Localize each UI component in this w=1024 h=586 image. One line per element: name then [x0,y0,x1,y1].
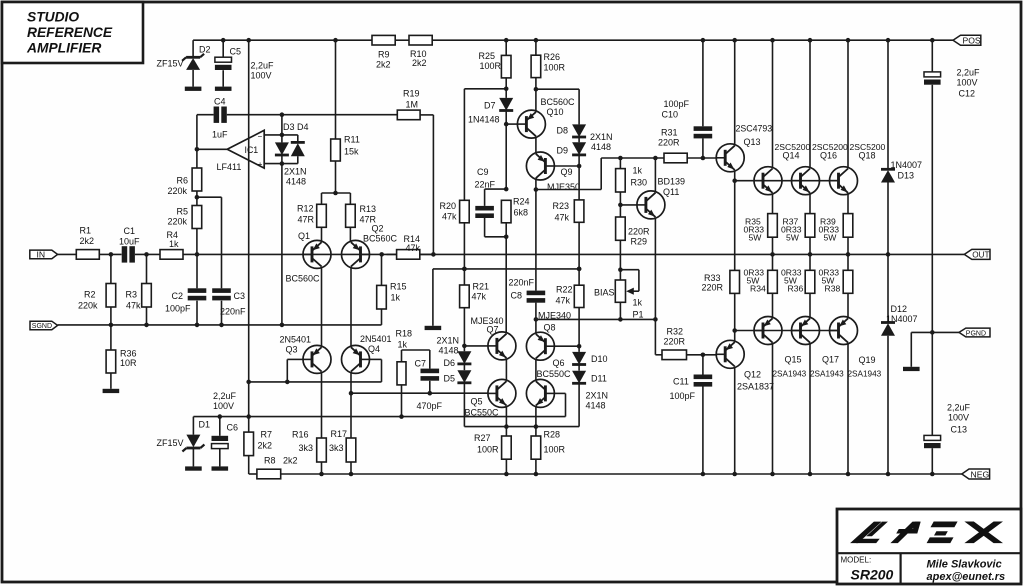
svg-text:R9: R9 [378,50,390,60]
capacitor C13 [924,403,971,449]
wire P1 bottom lead [619,302,621,319]
wire Q11 collector lead [654,158,656,192]
wire Q13 collector to POS [734,40,736,144]
wire VAS node up [600,158,602,190]
svg-text:10R: 10R [120,358,137,368]
svg-text:47R: 47R [298,215,315,225]
wire Q6 collector to R28 [535,407,537,436]
wire R5 to input node [196,229,198,255]
wire D4 top lead [297,135,299,141]
wire R2 top lead [110,254,112,283]
wire Q7 base wire [464,345,488,347]
resistor R29 [616,217,650,247]
wire R11 top lead [335,40,337,139]
wire non-inverting input down to SGND [281,164,283,325]
svg-text:C11: C11 [673,377,689,387]
diode D5 [444,370,472,383]
svg-text:15k: 15k [344,147,359,157]
svg-text:Q14: Q14 [783,151,800,161]
wire Q13 emitter down [734,171,736,270]
svg-text:D5: D5 [444,374,456,384]
diode D11 [572,371,607,384]
wire PNP emitter to NEG rail [847,344,849,474]
svg-text:Q8: Q8 [544,323,556,333]
svg-text:100R: 100R [544,63,566,73]
svg-text:R6: R6 [177,176,189,186]
wire D3 bottom lead [281,156,283,164]
wire R20 top to R25/D7 node [464,88,506,90]
diode D7 [468,98,513,125]
wire D12 anode lead [887,336,889,474]
svg-text:Q19: Q19 [859,355,876,365]
wire PNP base line [735,330,839,332]
svg-text:6k8: 6k8 [514,208,529,218]
wire R24 bottom lead [505,223,507,237]
capacitor C9 [475,167,496,218]
wire R14 right [420,253,434,255]
svg-text:Q18: Q18 [859,151,876,161]
wire R18/C7 top loop [402,349,430,351]
wire Q4 collector to R17 [350,373,352,438]
svg-text:5W: 5W [824,233,838,243]
svg-text:NEG: NEG [971,469,990,479]
wire D1 bottom lead [192,448,194,466]
resistor R19 [397,89,420,120]
svg-text:100V: 100V [948,413,969,423]
svg-text:C7: C7 [415,359,427,369]
svg-text:R13: R13 [360,204,377,214]
svg-text:PGND: PGND [966,331,986,338]
svg-text:220R: 220R [702,283,724,293]
transistor Q1 BC560C [286,231,332,284]
transistor Q3 2N5401 [280,335,332,374]
transistor Q19 2SA1943 [830,317,882,379]
node POS [953,35,981,45]
transistor Q8 MJE350 [526,311,571,361]
transistor Q14 2SC5200 [754,142,811,195]
wire C11 to NEG rail [702,387,704,475]
transistor Q12 2SA1837 [716,340,774,391]
wire R31 to Q13 base [687,157,717,159]
svg-text:D13: D13 [898,171,915,181]
wire Q9 collector to VAS node [536,189,601,191]
wire R12 top lead [321,193,323,204]
wire R23 to R22 [578,222,580,285]
wire bias rail [536,318,656,320]
resistor R39 [819,214,853,243]
svg-text:220k: 220k [168,186,188,196]
node op-amp output [195,147,200,152]
svg-text:ZF15V: ZF15V [157,59,184,69]
wire R11 bottom lead [335,161,337,193]
wire Q10 collector to Q9 emitter [535,137,537,152]
wire C9 top lead [484,189,486,206]
wire R13 top lead [349,193,351,204]
svg-text:2N5401: 2N5401 [360,334,392,344]
wire R6-R5 [196,191,198,206]
diode D1 ZF15V [157,420,211,452]
wire R32 to Q12 base [687,354,717,356]
svg-text:100R: 100R [480,61,502,71]
svg-text:2X1N: 2X1N [590,132,613,142]
wire D2 bottom lead [192,70,194,87]
svg-text:R30: R30 [631,178,648,188]
svg-text:D7: D7 [484,101,496,111]
resistor R36 [106,349,137,374]
wire D12 cathode lead [887,254,889,322]
svg-text:220nF: 220nF [220,307,246,317]
wire D10-D11 [578,365,580,371]
svg-text:R31: R31 [661,128,678,138]
svg-text:2N5401: 2N5401 [280,335,312,345]
resistor R36 output [781,268,803,294]
svg-text:2SC4793: 2SC4793 [736,124,773,134]
wire Q4 base down [381,359,383,382]
wire OUT line to lower resistor [772,254,774,270]
svg-text:100pF: 100pF [165,304,191,314]
svg-text:Q5: Q5 [471,397,483,407]
wire C4 left [197,114,214,116]
wire IC1 inverting input [264,134,298,136]
resistor R21 [460,282,489,308]
wire D7 to R24 [505,111,507,190]
wire Q6 base to -15V line [565,393,567,416]
svg-text:R29: R29 [631,237,648,247]
svg-text:R24: R24 [513,197,530,207]
svg-text:1k: 1k [633,298,643,308]
wire Q10 base stub [506,123,517,125]
svg-text:C6: C6 [227,423,239,433]
wire R20 column [463,89,465,201]
svg-text:100R: 100R [477,445,499,455]
svg-text:2SA1943: 2SA1943 [773,370,807,379]
svg-text:Q12: Q12 [744,370,761,380]
capacitor C2 [165,288,206,313]
svg-text:D10: D10 [591,354,608,364]
svg-text:IC1: IC1 [245,145,259,155]
wire C7 bottom lead [429,381,431,393]
wire C9 top loop [485,188,507,190]
svg-text:BC560C: BC560C [363,234,398,244]
wire Q11 emitter to R32 [655,354,662,356]
logo box APEX [837,509,1021,584]
diode D2 ZF15V [157,45,211,70]
wire C4 to R19 [227,114,397,116]
svg-text:C13: C13 [951,425,968,435]
svg-text:2SA1837: 2SA1837 [737,382,774,392]
svg-text:Q2: Q2 [372,224,384,234]
svg-text:100V: 100V [251,71,272,81]
svg-text:R32: R32 [667,327,684,337]
svg-text:1M: 1M [406,100,419,110]
svg-text:R23: R23 [553,201,570,211]
resistor R5 [168,206,202,229]
svg-text:R16: R16 [292,430,309,440]
diode D4 [291,122,309,156]
svg-text:2SA1943: 2SA1943 [848,370,882,379]
wire R18 top lead [401,350,403,362]
svg-text:220R: 220R [658,138,680,148]
svg-text:2k2: 2k2 [80,236,95,246]
svg-text:R15: R15 [390,282,407,292]
wire C1 to R4 [135,253,160,255]
wire resistor to PNP collector [809,293,811,317]
resistor R2 [78,284,116,311]
wire C3 bottom lead [221,301,223,325]
resistor R34 [744,268,778,294]
wire Q3 base down [286,359,288,382]
svg-text:1k: 1k [169,239,179,249]
wire R2 bottom lead [110,307,112,325]
wire R36 top lead [110,325,112,350]
wire C12 top lead [931,40,933,72]
resistor R4 [160,230,183,259]
wire R7 bottom lead [248,456,250,474]
wire R7 to R8 [249,473,257,475]
wire Q11 emitter down [654,218,656,355]
wire D11 to lower line [578,383,580,426]
node IN [30,249,58,259]
wire emitter resistor to OUT line [809,237,811,254]
svg-text:47k: 47k [555,213,570,223]
wire D13 anode lead [887,183,889,255]
wire D3 top lead [281,115,283,143]
resistor R6 [168,168,202,196]
transistor Q10 BC560C [517,97,575,138]
wire R12 to Q1 emitter [321,227,323,241]
wire R21 to D6 [463,308,465,352]
svg-text:C3: C3 [234,291,246,301]
wire PNP emitter to NEG rail [772,344,774,474]
svg-text:OUT: OUT [972,251,989,260]
wire R21/R22 bias line [433,268,579,270]
wire SGND line [58,324,382,326]
wire lower VAS line [464,426,579,428]
capacitor C6 [212,391,239,449]
wire R3 bottom lead [146,307,148,325]
wire R22 to D10 [578,308,580,352]
svg-text:REFERENCE: REFERENCE [27,25,113,40]
wire to Q7 collector [505,237,507,332]
svg-text:R25: R25 [479,51,496,61]
svg-text:+: + [258,160,263,169]
resistor R30 [616,166,647,193]
svg-text:2k2: 2k2 [376,60,391,70]
svg-text:R33: R33 [704,273,721,283]
wire output collector to POS [809,40,811,167]
wire D6-D5 [463,364,465,370]
svg-text:Q15: Q15 [785,355,802,365]
wire C10 top lead [702,40,704,126]
transistor Q16 2SC5200 [792,142,849,195]
svg-text:2,2uF: 2,2uF [213,391,237,401]
resistor R11 [331,135,360,162]
wire R33 to Q12 [734,293,736,341]
wire C11 top lead [702,355,704,375]
svg-text:220R: 220R [628,227,650,237]
diode D12 [881,304,918,336]
svg-text:1k: 1k [398,340,408,350]
wire Q12 collector to NEG [734,368,736,475]
svg-text:MODEL:: MODEL: [841,556,872,565]
resistor R27 [474,433,511,459]
wire Q16 emitter to R37 [809,194,811,214]
wire C13 to NEG rail [931,448,933,474]
diode D6 [444,351,472,368]
diode D13 [881,160,922,183]
wire R27 to NEG rail [505,459,507,474]
svg-text:R18: R18 [396,329,413,339]
svg-text:R28: R28 [544,430,561,440]
svg-text:Q7: Q7 [487,325,499,335]
wire D8-D9 [578,137,580,142]
svg-text:3k3: 3k3 [329,443,344,453]
wire D9 to R23 [578,155,580,200]
ground [185,87,202,91]
node NEG [962,469,990,479]
wire PGND node to C13 [931,332,933,435]
wire D5 to lower line [463,383,465,427]
wire R18 bottom lead [401,385,403,417]
node SGND [30,321,58,330]
wire NEG rail [281,473,962,475]
wire R15 top lead [381,254,383,285]
wire R5/R6 node to C3 [197,196,222,198]
svg-text:C10: C10 [662,110,679,120]
transistor Q2 BC560C [342,224,398,269]
wire R7 top lead [248,417,250,433]
svg-text:SR200: SR200 [851,567,894,583]
wire Q9 base stub [554,165,579,167]
resistor R37 [781,214,815,243]
svg-text:Q17: Q17 [822,355,839,365]
wire Q2 collector to Q4 emitter [350,268,352,347]
wire to D8 top [536,88,579,90]
wire R13 to Q2 emitter [349,227,351,241]
resistor R22 [556,285,584,308]
svg-text:BIAS: BIAS [594,288,615,298]
wire Q3/Q4 base bias line [249,381,382,383]
svg-text:1N4007: 1N4007 [891,160,923,170]
svg-text:AMPLIFIER: AMPLIFIER [26,41,101,56]
wire C3 top lead [221,197,223,288]
op-amp IC1 LF411 [217,130,265,172]
transistor Q9 MJE350 [526,152,580,192]
wire Q1 collector to Q3 emitter [321,268,323,347]
node PGND [959,328,990,337]
svg-text:D12: D12 [891,304,908,314]
wire IN to R1 [58,253,77,255]
capacitor C1 [119,226,140,263]
wire resistor to PNP collector [772,293,774,317]
svg-text:C1: C1 [124,226,136,236]
potentiometer P1 BIAS [594,270,644,320]
resistor R20 [440,200,470,223]
svg-text:Q9: Q9 [561,167,573,177]
wire C4 left down to R6 [196,115,198,168]
resistor R3 [126,284,152,311]
resistor R13 [346,204,377,227]
wire emitter resistor to OUT line [772,237,774,254]
transistor Q15 2SA1943 [754,317,807,379]
transistor Q7 MJE340 [471,316,516,360]
wire R30 to R29 [619,192,621,217]
wire Q6 base stub [554,392,565,394]
svg-text:4148: 4148 [591,142,611,152]
resistor R7 [244,430,272,456]
svg-text:R3: R3 [126,290,138,300]
svg-text:47k: 47k [442,212,457,222]
wire D2 top lead [192,40,194,56]
wire bias line ground stub [432,269,434,326]
capacitor C12 [924,68,980,99]
svg-text:47k: 47k [406,243,421,253]
resistor R9 [372,35,395,69]
svg-text:1N4148: 1N4148 [468,115,500,125]
diode D10 [572,352,607,365]
svg-text:LF411: LF411 [217,162,242,172]
wire -15V line [193,416,565,418]
svg-text:2,2uF: 2,2uF [957,68,981,78]
wire C2 bottom lead [196,301,198,325]
svg-text:C4: C4 [214,97,226,107]
wire +15 feed column x=248 [248,40,250,416]
svg-text:100R: 100R [544,445,566,455]
wire POS rail left [193,39,372,41]
svg-text:Q4: Q4 [368,344,380,354]
resistor R28 [531,430,565,460]
resistor R15 [377,282,407,310]
svg-text:1uF: 1uF [212,130,228,140]
wire C5 bottom lead [222,70,224,86]
svg-text:BC560C: BC560C [286,274,321,284]
svg-text:R12: R12 [297,204,314,214]
svg-text:D8: D8 [557,126,569,136]
capacitor C5 [215,47,274,81]
svg-text:1N4007: 1N4007 [886,314,918,324]
svg-text:C8: C8 [511,291,523,301]
svg-text:D9: D9 [557,146,569,156]
svg-text:100V: 100V [957,78,978,88]
wire R16 to NEG rail [321,462,323,474]
svg-text:2,2uF: 2,2uF [251,61,275,71]
resistor R12 [297,204,326,228]
wire POS rail [432,39,953,41]
wire C7 top lead [429,350,431,369]
svg-text:BC560C: BC560C [541,97,576,107]
svg-text:1k: 1k [391,293,401,303]
svg-text:2,2uF: 2,2uF [947,403,971,413]
svg-text:100pF: 100pF [670,391,696,401]
svg-text:22nF: 22nF [475,180,496,190]
capacitor C4 [212,97,228,140]
svg-text:−: − [258,132,263,141]
svg-text:BC550C: BC550C [537,369,572,379]
wire C9 bottom loop [485,236,507,238]
wire emitter resistor to OUT line [847,237,849,254]
wire D4 bottom lead [297,156,299,163]
capacitor C11 [670,375,713,402]
svg-text:BC550C: BC550C [465,408,500,418]
svg-text:R36: R36 [120,349,137,359]
wire C12 bottom to PGND node [931,85,933,333]
wire Q3 collector to R16 [321,373,323,438]
svg-text:R2: R2 [84,290,96,300]
svg-text:2k2: 2k2 [258,441,273,451]
wire OUT line to lower resistor [847,254,849,270]
svg-text:R17: R17 [331,429,348,439]
svg-text:5W: 5W [749,233,763,243]
